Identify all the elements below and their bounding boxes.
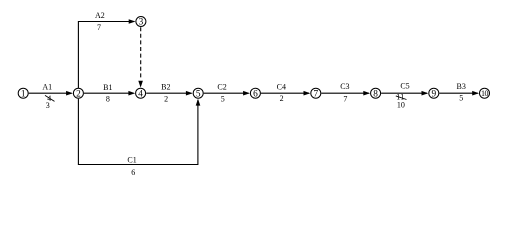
svg-text:9: 9 (431, 89, 436, 99)
arrowhead into node 9 (422, 91, 429, 96)
svg-text:A1: A1 (42, 82, 52, 91)
arrowhead into node 5 bottom (196, 99, 201, 106)
wire B3 (node 9 to node 10) (439, 92, 477, 94)
arrowhead into node 4 top (138, 81, 143, 88)
wire C2 (node 5 to node 6) (204, 92, 249, 94)
svg-text:10: 10 (397, 100, 405, 109)
svg-text:8: 8 (106, 94, 110, 103)
arrowhead into node 6 (243, 91, 250, 96)
arrowhead into node 3 (129, 19, 136, 24)
node 1 (18, 88, 28, 98)
svg-text:2: 2 (76, 89, 81, 99)
wire C4 (node 6 to node 7) (261, 92, 309, 94)
arrowhead into node 8 (363, 91, 370, 96)
node 4 (136, 88, 146, 98)
svg-text:8: 8 (373, 89, 378, 99)
svg-text:10: 10 (481, 89, 489, 98)
wire B2 (node 4 to node 5) (146, 92, 191, 94)
svg-text:C3: C3 (340, 82, 349, 91)
svg-text:C2: C2 (217, 83, 226, 92)
wire C5 (node 8 to node 9) (381, 92, 427, 94)
node 2 (73, 88, 83, 98)
svg-text:A2: A2 (95, 11, 105, 20)
svg-text:2: 2 (280, 94, 284, 103)
node 10 (480, 88, 490, 98)
node 9 (429, 88, 439, 98)
wire C1 path (node 2 down, right, up to node 5) (78, 99, 197, 165)
svg-text:B3: B3 (457, 82, 466, 91)
node 6 (250, 88, 260, 98)
svg-text:C1: C1 (127, 156, 136, 165)
svg-text:7: 7 (313, 89, 318, 99)
svg-text:3: 3 (139, 18, 144, 28)
svg-text:3: 3 (46, 101, 50, 110)
svg-text:7: 7 (97, 23, 101, 32)
arrowhead into node 7 (304, 91, 311, 96)
node 7 (311, 88, 321, 98)
dummy activity dashed wire (node 3 down to node 4) (140, 27, 142, 80)
svg-text:2: 2 (164, 94, 168, 103)
arrowhead into node 10 (472, 91, 479, 96)
wire A1 (node 1 to node 2) (29, 92, 72, 94)
wire B1 (node 2 to node 4) (84, 92, 134, 94)
wire C3 (node 7 to node 8) (321, 92, 369, 94)
svg-text:B1: B1 (103, 83, 112, 92)
svg-text:5: 5 (459, 93, 463, 102)
svg-text:5: 5 (221, 94, 225, 103)
arrowhead into node 5 (186, 91, 193, 96)
svg-text:1: 1 (21, 89, 26, 99)
svg-text:6: 6 (253, 89, 258, 99)
svg-text:4: 4 (138, 89, 143, 99)
node 3 (136, 17, 146, 27)
svg-text:C4: C4 (277, 83, 286, 92)
svg-text:C5: C5 (400, 81, 409, 90)
svg-text:6: 6 (131, 168, 135, 177)
arrowhead into node 2 (66, 91, 73, 96)
node 8 (371, 88, 381, 98)
svg-text:5: 5 (196, 89, 201, 99)
wire A2 path (node 2 up and right to node 3) (78, 22, 134, 89)
node 5 (193, 88, 203, 98)
svg-text:7: 7 (343, 95, 347, 104)
arrowhead into node 4 (128, 91, 135, 96)
svg-text:B2: B2 (161, 83, 170, 92)
